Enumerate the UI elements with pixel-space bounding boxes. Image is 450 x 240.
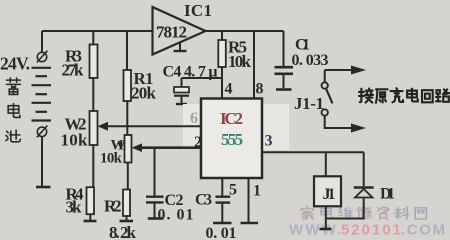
resistor R1 <box>124 70 132 101</box>
wire R2 bottom <box>126 216 128 220</box>
relay coil J1 box <box>314 176 341 206</box>
battery bottom terminal bar <box>36 186 51 189</box>
wire battery bottom <box>41 137 43 186</box>
wire pin 2 (W1 wiper to 555) <box>138 146 201 149</box>
switch J1-1 <box>322 70 353 128</box>
watermark url www.520101.com <box>289 222 445 239</box>
resistor R4 <box>87 187 95 214</box>
op-amp style regulator IC1 7812 triangle <box>153 7 206 55</box>
capacitor C3 on pin 5 <box>221 178 223 196</box>
IC1 ground pin <box>174 43 187 52</box>
wire R5 to pin 4 <box>221 67 223 99</box>
wire W1 to R2 <box>127 163 129 190</box>
wire pin 8 drop <box>253 31 255 99</box>
watermark jia-dian-wei-xiu-zi-liao-wang (家电维修资料网) <box>301 207 426 220</box>
diode D1 <box>363 152 365 186</box>
potentiometer W1 <box>125 135 132 163</box>
battery terminal bottom (circle-slash) <box>37 126 48 138</box>
resistor R2 <box>123 190 130 217</box>
pin 1 ground bar <box>241 222 259 225</box>
R2 ground bar <box>120 220 134 223</box>
wire W2 to R4 <box>92 145 94 187</box>
wire R3 top drop <box>92 31 94 45</box>
R4 ground bar <box>84 220 97 223</box>
battery 24V terminal top (circle-slash) <box>37 51 48 63</box>
resistor R5 <box>221 31 223 40</box>
battery 24V cells <box>32 68 52 121</box>
arrow to external (bottom) <box>351 124 366 133</box>
scan white patch left of IC2 <box>183 104 201 149</box>
wire battery top drop <box>41 31 43 53</box>
IC2 555 timer box <box>201 99 262 179</box>
wire J1 bottom <box>325 206 327 228</box>
wire pin 3 to J1/D1 <box>262 151 364 153</box>
label dian (电) <box>8 104 20 118</box>
label jie-yuan-chong-dian-hui-lu (接原充电回路) <box>359 88 449 103</box>
J1 ground bar <box>320 228 332 231</box>
wire top rail right (IC1 output to C1 corner) <box>206 30 284 32</box>
W2 wiper arrow <box>98 122 109 131</box>
wire R1 top drop <box>126 31 128 70</box>
wire R3 to W2 <box>92 78 94 111</box>
wire top rail left (battery to IC1 input) <box>42 30 153 32</box>
W1 wiper arrow <box>132 143 143 152</box>
scan white patch right of IC2 <box>262 104 289 150</box>
wire pin 1 <box>248 178 250 222</box>
label xu (蓄) <box>7 78 21 94</box>
capacitor C2 <box>154 148 156 196</box>
wire J1 drop <box>325 152 327 176</box>
wire R4 bottom <box>89 214 91 220</box>
wire C4 to pin4 column <box>182 77 223 79</box>
arrow to external (top) <box>351 66 366 75</box>
wire R1 to W1 <box>126 101 128 135</box>
capacitor C1 <box>283 31 285 66</box>
resistor R3 <box>90 45 98 79</box>
wire pin 6 (W2 wiper to 555) <box>104 125 201 127</box>
paper noise overlay <box>0 0 1 1</box>
label chi (池) <box>6 130 21 142</box>
potentiometer W2 <box>90 111 98 145</box>
